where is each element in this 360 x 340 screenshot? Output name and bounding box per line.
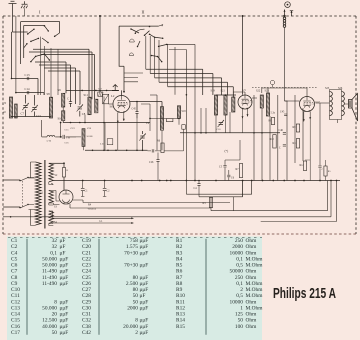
coil S8: [49, 97, 52, 118]
tone capacitor C31: [319, 103, 321, 181]
svg-text:S22: S22: [256, 90, 261, 93]
svg-text:μμF: μμF: [60, 324, 69, 330]
svg-text:C11: C11: [11, 293, 20, 299]
output transformer S25: [330, 92, 333, 116]
capacitor C13: [27, 77, 29, 80]
rectifier tube: [59, 190, 73, 204]
coil S14: [15, 104, 18, 118]
dashed chassis border bottom: [3, 233, 356, 235]
bus y216.8: [3, 181, 331, 217]
resistor R10: [273, 135, 276, 148]
switch I contact arms: [28, 26, 60, 37]
resistor R8: [271, 118, 274, 125]
svg-text:250: 250: [235, 238, 243, 244]
svg-text:μμF: μμF: [60, 312, 69, 318]
S4 heater wires to dial lamps: [49, 211, 105, 224]
drop from bus right: [233, 197, 235, 211]
small bracket box: [107, 139, 113, 145]
svg-text:C32: C32: [82, 318, 91, 324]
output transformer S26: [342, 92, 345, 116]
transformer top ties: [330, 90, 342, 92]
bus y221.5: [261, 181, 337, 222]
wire: [48, 71, 80, 104]
svg-text:8: 8: [135, 318, 138, 324]
IF coil S17: [160, 107, 163, 130]
svg-text:50.000: 50.000: [42, 263, 57, 269]
svg-text:M.Ohm: M.Ohm: [246, 305, 264, 311]
wire C14 row: [16, 93, 44, 95]
svg-text:C23: C23: [82, 263, 91, 269]
svg-text:50.000: 50.000: [42, 305, 57, 311]
volume mech dashed link: [252, 87, 318, 89]
svg-text:μF: μF: [60, 250, 66, 256]
capacitor C45: [284, 114, 287, 116]
secondary S2: [49, 163, 54, 182]
dashed chassis border top: [3, 15, 356, 17]
wires: [174, 47, 176, 95]
svg-text:C24: C24: [82, 269, 91, 275]
svg-text:100: 100: [235, 324, 243, 330]
svg-text:C25: C25: [82, 275, 91, 281]
svg-text:μμF: μμF: [60, 305, 69, 311]
resistor R7: [239, 164, 242, 178]
padder junction: [60, 136, 62, 138]
table divider 3: [205, 239, 207, 335]
svg-text:S25: S25: [325, 87, 330, 90]
svg-text:C42: C42: [82, 330, 91, 336]
svg-text:μμF: μμF: [140, 287, 149, 293]
speaker: [349, 100, 353, 109]
svg-text:32: 32: [52, 244, 58, 250]
wire: [155, 78, 222, 95]
wire: [33, 49, 89, 97]
svg-text:Ohm: Ohm: [246, 324, 258, 330]
verticals x201 x206: [201, 108, 206, 133]
cathode arrows: [117, 112, 119, 123]
wire y132.8: [180, 132, 280, 134]
C45 drop: [136, 118, 138, 150]
capacitor C27: [283, 145, 286, 147]
svg-text:C13: C13: [11, 305, 20, 311]
resistor R3: [209, 198, 212, 208]
svg-text:10000: 10000: [230, 299, 244, 305]
svg-text:C17: C17: [11, 330, 20, 336]
terminal tick arrow: [290, 11, 293, 16]
svg-text:C19: C19: [82, 238, 91, 244]
electrolytic C1: [82, 181, 84, 197]
svg-text:125: 125: [235, 312, 243, 318]
wires: [146, 36, 168, 87]
transformer primary S1: [36, 162, 42, 225]
svg-text:S18: S18: [182, 110, 187, 113]
svg-text:5/16: 5/16: [47, 140, 52, 143]
value table background: [7, 237, 262, 340]
svg-text:R5: R5: [176, 263, 183, 269]
coil S23: [266, 93, 269, 116]
svg-text:R9: R9: [176, 287, 183, 293]
svg-text:μμF: μμF: [60, 269, 69, 275]
svg-text:μμF: μμF: [140, 305, 149, 311]
padder coil S7 horizontal: [47, 135, 55, 137]
resistor R12: [303, 161, 306, 170]
svg-text:R14: R14: [176, 318, 185, 324]
svg-text:C29: C29: [82, 299, 91, 305]
svg-text:M.Ohm: M.Ohm: [246, 263, 264, 269]
svg-text:μμF: μμF: [60, 281, 69, 287]
svg-text:C7: C7: [21, 112, 25, 116]
tube L4 output: [300, 97, 315, 112]
svg-text:S11: S11: [84, 93, 89, 97]
junction and drop x=100: [99, 15, 101, 17]
switch II upper contacts: [131, 29, 163, 47]
svg-text:C6: C6: [11, 263, 18, 269]
svg-text:R15: R15: [176, 324, 185, 330]
wire: [40, 37, 58, 98]
B+ wire: [73, 200, 230, 203]
svg-text:Ohm: Ohm: [246, 318, 258, 324]
svg-text:50.000: 50.000: [42, 256, 57, 262]
grid cap lead: [285, 100, 300, 102]
wire: [146, 69, 203, 95]
switch link: [21, 181, 23, 207]
plate to transformer: [316, 102, 330, 104]
wire: [23, 26, 25, 59]
wire y122.5: [63, 121, 150, 123]
S2 top wire to rectifier: [49, 162, 64, 164]
svg-text:μμF: μμF: [140, 281, 149, 287]
wire: [159, 82, 228, 95]
svg-text:80: 80: [133, 287, 139, 293]
svg-text:R2: R2: [176, 244, 183, 250]
svg-text:C46: C46: [279, 129, 284, 132]
coil row bottom tie: [11, 117, 51, 119]
svg-text:μF: μF: [140, 293, 146, 299]
svg-text:μμF: μμF: [140, 250, 149, 256]
svg-text:0,1: 0,1: [236, 256, 243, 262]
svg-text:R4: R4: [176, 256, 183, 262]
bus y210.7: [211, 181, 328, 211]
svg-text:C26: C26: [149, 161, 154, 164]
svg-text:80: 80: [133, 275, 139, 281]
svg-text:μμF: μμF: [140, 275, 149, 281]
switch I outer loop: [21, 22, 60, 33]
wire: [124, 73, 143, 82]
mains input wires: [3, 180, 20, 207]
svg-text:2000: 2000: [232, 244, 243, 250]
wire tube1 cathode region: [117, 123, 119, 150]
svg-text:μμF: μμF: [60, 299, 69, 305]
svg-text:M.Ohm: M.Ohm: [246, 256, 264, 262]
svg-text:(*): (*): [225, 149, 229, 153]
oscillator coil S6: [103, 94, 109, 104]
bottom tie to padder: [62, 107, 64, 111]
svg-text:C15: C15: [11, 318, 20, 324]
wire (*) up: [225, 140, 240, 160]
svg-text:2: 2: [135, 330, 138, 336]
svg-text:L2: L2: [111, 94, 115, 98]
svg-text:C2: C2: [11, 244, 18, 250]
switch I lower section arms: [31, 54, 50, 62]
svg-text:C1: C1: [11, 238, 18, 244]
svg-text:μμF: μμF: [60, 275, 69, 281]
svg-text:C8: C8: [11, 275, 18, 281]
right verticals from bus: [242, 181, 244, 197]
junction and drop x=242.5: [242, 15, 244, 17]
svg-text:S10: S10: [58, 117, 63, 121]
svg-text:R12: R12: [176, 305, 185, 311]
svg-text:M.Ohm: M.Ohm: [246, 287, 264, 293]
svg-text:C20: C20: [82, 244, 91, 250]
vertical x186.4: [185, 95, 187, 194]
B+ wire y208: [70, 198, 211, 209]
wire: [35, 62, 66, 93]
bell contact 1: [130, 39, 135, 42]
svg-text:μμF: μμF: [60, 256, 69, 262]
coil S10: [62, 111, 65, 121]
svg-text:R1: R1: [176, 238, 183, 244]
secondary S4: [49, 211, 54, 223]
main ground bus: [54, 180, 341, 182]
svg-text:C12: C12: [11, 299, 20, 305]
plate wire: [130, 101, 162, 103]
svg-text:50: 50: [133, 293, 139, 299]
svg-text:11-490: 11-490: [42, 275, 57, 281]
svg-text:C5: C5: [11, 256, 18, 262]
resistor R16: [167, 119, 173, 122]
antenna lead into switch: [13, 16, 28, 32]
coupling box S16: [98, 92, 103, 96]
rectifier filament wires: [49, 191, 60, 205]
wire y150.3: [85, 149, 148, 151]
svg-text:C30: C30: [82, 305, 91, 311]
table top tick marks: [8, 236, 262, 238]
trimmer C23: [218, 120, 224, 127]
dial lamps L1: [105, 217, 134, 219]
wire: [44, 68, 76, 104]
padder caps: [63, 135, 65, 139]
wire: [39, 65, 71, 99]
tube L3 IF: [238, 95, 252, 109]
svg-text:C38: C38: [82, 324, 91, 330]
svg-text:50000: 50000: [230, 269, 244, 275]
svg-text:C: C: [279, 147, 281, 150]
ground bus y180.5: [52, 181, 54, 185]
svg-text:16000: 16000: [230, 250, 244, 256]
table divider 2: [98, 239, 100, 335]
svg-text:758: 758: [130, 238, 138, 244]
svg-text:μμF: μμF: [60, 263, 69, 269]
svg-text:S6: S6: [110, 105, 114, 109]
wire: [29, 52, 92, 99]
IF coil S18: [177, 106, 180, 119]
svg-text:N: N: [4, 102, 6, 105]
wire: [168, 87, 234, 97]
dashed chassis border right: [355, 16, 357, 234]
svg-text:C21: C21: [82, 250, 91, 256]
svg-text:2000: 2000: [127, 305, 138, 311]
svg-text:μμF: μμF: [140, 324, 149, 330]
capacitor C46: [283, 133, 286, 135]
capacitor C6: [228, 170, 230, 181]
wire C13 row: [12, 79, 39, 96]
coil S19: [214, 95, 217, 115]
svg-text:R10: R10: [270, 138, 275, 141]
svg-text:C10: C10: [11, 287, 20, 293]
svg-text:S19: S19: [211, 90, 216, 93]
svg-text:μμF: μμF: [140, 244, 149, 250]
svg-text:C14: C14: [11, 312, 20, 318]
bell contact 2: [129, 53, 133, 56]
mains switch arms: [20, 178, 28, 209]
svg-text:70+30: 70+30: [124, 250, 138, 256]
svg-text:C7: C7: [11, 269, 18, 275]
wire: [11, 32, 13, 79]
svg-text:32: 32: [52, 238, 58, 244]
svg-text:20: 20: [52, 312, 58, 318]
svg-text:Ohm: Ohm: [246, 269, 258, 275]
svg-text:S8: S8: [47, 92, 51, 96]
feed wires from switch II: [167, 43, 195, 45]
svg-text:C28: C28: [82, 293, 91, 299]
svg-text:C: C: [67, 98, 69, 101]
lamp feed joins: [285, 100, 288, 102]
svg-text:μμF: μμF: [140, 263, 149, 269]
svg-text:70+30: 70+30: [124, 263, 138, 269]
svg-text:0,5: 0,5: [236, 293, 243, 299]
tie wire tops: [216, 94, 236, 96]
svg-text:R3: R3: [176, 250, 183, 256]
lamp lead with arrow: [284, 10, 286, 17]
vertical x157: [156, 95, 158, 150]
svg-text:C13: C13: [25, 73, 31, 77]
transformer core: [44, 160, 46, 229]
table divider 1: [26, 239, 28, 335]
svg-text:Ohm: Ohm: [246, 275, 258, 281]
capacitor C4: [197, 184, 200, 186]
primary taps: [29, 162, 36, 226]
svg-text:μμF: μμF: [60, 318, 69, 324]
dial coil beads: [283, 17, 286, 27]
svg-text:C45: C45: [132, 108, 137, 111]
svg-text:μμF: μμF: [140, 299, 149, 305]
dashed chassis border left: [2, 16, 4, 234]
svg-text:1.575: 1.575: [126, 244, 138, 250]
variable capacitor C7: [22, 103, 28, 110]
switch II frame: [119, 26, 159, 92]
earth terminal: [21, 1, 28, 8]
svg-text:Ohm: Ohm: [246, 244, 258, 250]
svg-text:R8: R8: [176, 281, 183, 287]
svg-text:2: 2: [240, 287, 243, 293]
electrolytic C2: [104, 181, 106, 197]
svg-text:S9: S9: [58, 88, 62, 92]
svg-text:Philips 215 A: Philips 215 A: [273, 285, 336, 302]
resistor R6: [161, 143, 164, 153]
svg-text:M.Ohm: M.Ohm: [246, 281, 264, 287]
link wires: [141, 104, 150, 131]
svg-text:μμF: μμF: [60, 330, 69, 336]
capacitor C30: [152, 149, 154, 152]
AVC wire along tops: [66, 89, 119, 91]
coil S13: [9, 97, 12, 118]
verticals: [253, 95, 255, 181]
svg-text:μμF: μμF: [140, 330, 149, 336]
svg-text:C27: C27: [82, 287, 91, 293]
svg-text:Ohm: Ohm: [246, 299, 258, 305]
svg-text:μF: μF: [60, 238, 66, 244]
variable capacitor C15: [31, 105, 37, 112]
svg-text:2.500: 2.500: [126, 281, 138, 287]
coil S22: [260, 95, 263, 108]
svg-text:C14: C14: [25, 87, 31, 91]
svg-text:40.000: 40.000: [42, 324, 57, 330]
coil S21: [224, 95, 227, 115]
wire: [20, 22, 22, 64]
svg-text:M.Ohm: M.Ohm: [246, 293, 264, 299]
variable capacitor C8: [77, 104, 83, 111]
wire: [15, 16, 17, 93]
svg-text:Ohm: Ohm: [246, 238, 258, 244]
svg-text:50: 50: [52, 330, 58, 336]
svg-text:50: 50: [133, 299, 139, 305]
svg-text:R11: R11: [176, 299, 185, 305]
svg-text:C26: C26: [82, 281, 91, 287]
coil S9: [62, 93, 65, 107]
svg-text:8: 8: [54, 299, 57, 305]
svg-text:12.500: 12.500: [42, 318, 57, 324]
box C5b: [182, 125, 186, 130]
svg-text:C45: C45: [280, 111, 285, 114]
svg-text:C9: C9: [11, 281, 18, 287]
svg-text:R7: R7: [176, 275, 183, 281]
svg-text:S21: S21: [221, 90, 226, 93]
svg-text:0,1: 0,1: [50, 250, 57, 256]
svg-text:μμF: μμF: [140, 238, 149, 244]
svg-text:C31: C31: [82, 312, 91, 318]
secondary S3: [49, 191, 54, 203]
svg-text:C4: C4: [11, 250, 18, 256]
svg-text:0,5: 0,5: [236, 263, 243, 269]
lever arc: [135, 29, 144, 33]
resistor R5: [324, 166, 327, 176]
resistor R11: [296, 139, 299, 148]
capacitor C14: [27, 91, 29, 94]
local-distance trimmer symbol: [112, 85, 119, 91]
svg-text:S23: S23: [265, 90, 270, 93]
transformer bottoms: [330, 116, 342, 120]
capacitor C5: [224, 160, 226, 181]
svg-text:11-490: 11-490: [42, 269, 57, 275]
coil S11: [88, 97, 91, 115]
coil S12: [95, 99, 98, 113]
resistor R9: [296, 124, 299, 132]
svg-text:R6: R6: [176, 269, 183, 275]
svg-text:C15: C15: [36, 114, 42, 118]
svg-text:R12: R12: [300, 164, 305, 167]
coil S20: [232, 97, 235, 112]
resistor R15 on anode: [63, 168, 66, 178]
wire: [150, 74, 213, 96]
svg-text:250: 250: [235, 275, 243, 281]
svg-text:0,1: 0,1: [236, 281, 243, 287]
svg-text:50: 50: [238, 318, 244, 324]
svg-text:R11: R11: [293, 142, 298, 145]
capacitor C16b: [69, 102, 72, 104]
vertical x195: [194, 44, 196, 180]
svg-text:Ohm: Ohm: [246, 250, 258, 256]
bias wires below bus: [186, 181, 251, 195]
svg-text:R10: R10: [176, 293, 185, 299]
